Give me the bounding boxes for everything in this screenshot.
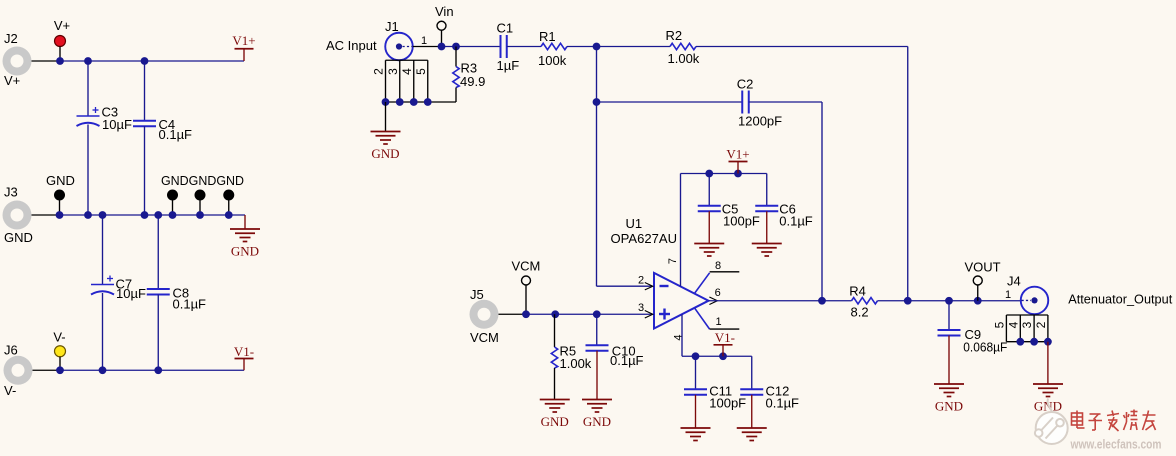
svg-text:100pF: 100pF	[709, 396, 746, 411]
svg-text:5: 5	[414, 68, 428, 75]
svg-text:10µF: 10µF	[102, 117, 132, 132]
svg-text:0.1µF: 0.1µF	[173, 296, 207, 311]
svg-text:4: 4	[672, 334, 684, 340]
svg-text:100pF: 100pF	[723, 214, 760, 229]
svg-text:R4: R4	[849, 284, 866, 299]
svg-text:3: 3	[386, 68, 400, 75]
svg-text:V1+: V1+	[232, 33, 255, 48]
svg-text:V1-: V1-	[715, 330, 735, 345]
svg-text:VCM: VCM	[512, 259, 541, 274]
svg-text:Attenuator_Output: Attenuator_Output	[1068, 292, 1172, 307]
svg-text:1: 1	[715, 316, 721, 328]
svg-text:C2: C2	[737, 77, 754, 92]
svg-text:10µF: 10µF	[116, 286, 146, 301]
svg-text:V-: V-	[53, 330, 65, 345]
svg-text:2: 2	[372, 68, 386, 75]
svg-text:GND: GND	[583, 414, 611, 429]
svg-text:C1: C1	[497, 21, 514, 36]
svg-text:AC Input: AC Input	[326, 38, 377, 53]
svg-text:8: 8	[715, 260, 721, 272]
svg-text:J1: J1	[385, 19, 399, 34]
svg-text:R1: R1	[539, 29, 556, 44]
svg-text:2: 2	[1034, 321, 1048, 328]
svg-text:V+: V+	[54, 18, 70, 33]
svg-text:49.9: 49.9	[460, 74, 485, 89]
svg-text:VCM: VCM	[470, 330, 499, 345]
svg-text:GND: GND	[231, 244, 259, 259]
svg-text:Vin: Vin	[435, 4, 454, 19]
svg-text:0.1µF: 0.1µF	[766, 396, 800, 411]
svg-text:J2: J2	[4, 31, 18, 46]
svg-text:GND: GND	[935, 399, 963, 414]
svg-text:5: 5	[992, 321, 1006, 328]
svg-text:4: 4	[1006, 321, 1020, 328]
svg-text:1.00k: 1.00k	[668, 51, 700, 66]
svg-text:1: 1	[1005, 289, 1011, 301]
svg-text:GNDGNDGND: GNDGNDGND	[161, 173, 244, 188]
svg-text:J6: J6	[4, 343, 18, 358]
svg-text:GND: GND	[371, 146, 399, 161]
svg-text:0.1µF: 0.1µF	[610, 353, 644, 368]
svg-text:4: 4	[400, 68, 414, 75]
svg-text:U1: U1	[626, 216, 643, 231]
svg-text:2: 2	[638, 275, 644, 287]
svg-text:1.00k: 1.00k	[560, 356, 592, 371]
svg-text:8.2: 8.2	[851, 305, 869, 320]
svg-text:OPA627AU: OPA627AU	[611, 231, 678, 246]
svg-text:100k: 100k	[538, 53, 567, 68]
svg-text:3: 3	[1020, 321, 1034, 328]
svg-text:J5: J5	[470, 287, 484, 302]
svg-text:R2: R2	[666, 28, 683, 43]
svg-text:VOUT: VOUT	[965, 260, 1001, 275]
svg-text:GND: GND	[4, 230, 33, 245]
svg-text:J3: J3	[4, 185, 18, 200]
svg-text:V+: V+	[4, 73, 20, 88]
svg-text:GND: GND	[541, 414, 569, 429]
svg-text:1200pF: 1200pF	[738, 114, 782, 129]
svg-text:0.1µF: 0.1µF	[779, 214, 813, 229]
svg-text:V1+: V1+	[726, 147, 749, 162]
svg-text:0.068µF: 0.068µF	[963, 340, 1007, 355]
svg-text:V1-: V1-	[234, 344, 254, 359]
svg-text:1: 1	[421, 35, 427, 47]
svg-text:J4: J4	[1007, 274, 1021, 289]
svg-text:6: 6	[715, 287, 721, 299]
svg-text:1µF: 1µF	[497, 58, 520, 73]
svg-text:GND: GND	[46, 173, 75, 188]
svg-text:3: 3	[638, 302, 644, 314]
svg-text:0.1µF: 0.1µF	[159, 127, 193, 142]
svg-text:V-: V-	[4, 383, 16, 398]
svg-text:www.elecfans.com: www.elecfans.com	[1070, 437, 1162, 452]
svg-text:7: 7	[667, 258, 679, 264]
